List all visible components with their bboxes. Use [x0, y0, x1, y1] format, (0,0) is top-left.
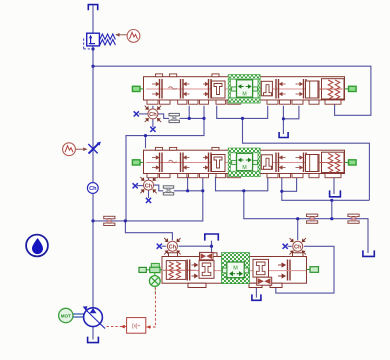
svg-text:MOT: MOT: [61, 313, 71, 318]
svg-text:Ch: Ch: [89, 186, 97, 192]
svg-text:[x]÷: [x]÷: [132, 324, 140, 330]
svg-text:M: M: [233, 265, 238, 271]
